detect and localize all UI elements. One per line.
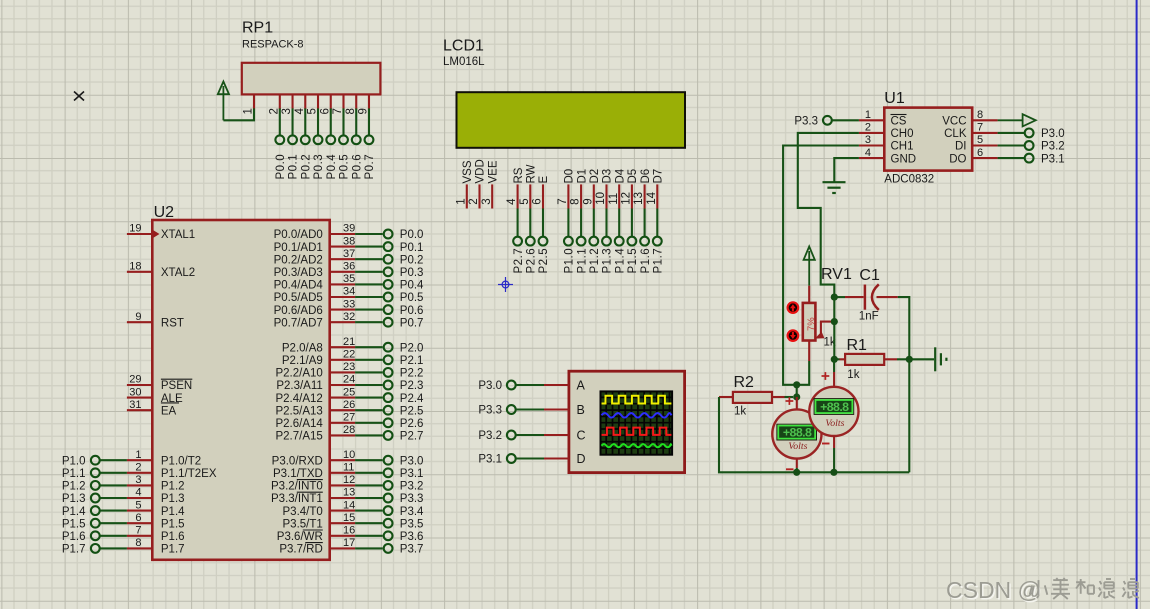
svg-text:P1.7: P1.7 — [62, 544, 86, 556]
svg-text:5: 5 — [307, 108, 319, 114]
svg-text:P2.7/A15: P2.7/A15 — [275, 431, 322, 443]
svg-text:17: 17 — [343, 537, 355, 549]
terminal P3.2 (U1) — [998, 141, 1065, 153]
svg-text:C: C — [577, 429, 586, 443]
svg-text:EA: EA — [161, 405, 177, 417]
svg-text:35: 35 — [343, 273, 355, 285]
terminal P3.0 (U2 right) — [355, 455, 423, 467]
svg-text:8: 8 — [345, 108, 357, 114]
svg-text:P2.3/A11: P2.3/A11 — [276, 380, 322, 392]
terminal P1.5 (U2 pin 6) — [62, 518, 127, 530]
svg-text:16: 16 — [343, 525, 355, 537]
svg-text:P1.6: P1.6 — [161, 531, 185, 543]
terminal P0.7 (U2 right) — [355, 317, 423, 329]
svg-text:P0.3: P0.3 — [313, 154, 325, 180]
svg-text:C1: C1 — [859, 267, 880, 284]
svg-text:D4: D4 — [614, 168, 626, 183]
svg-text:7: 7 — [135, 525, 141, 537]
watermark CSDN — [946, 577, 1139, 603]
svg-text:P0.7: P0.7 — [364, 154, 376, 180]
svg-text:P1.3: P1.3 — [602, 248, 614, 274]
wire R2 left down to bottom rail — [719, 397, 909, 472]
svg-text:P0.0: P0.0 — [400, 229, 424, 241]
svg-text:P3.0: P3.0 — [478, 380, 502, 392]
terminal P0.4 (U2 right) — [355, 280, 424, 292]
terminal P3.3 (U2 right) — [355, 493, 423, 505]
svg-text:P2.4/A12: P2.4/A12 — [275, 393, 322, 405]
terminal P1.5 (LCD pin) — [627, 209, 639, 274]
svg-text:23: 23 — [343, 361, 355, 373]
svg-text:P0.2/AD2: P0.2/AD2 — [274, 254, 323, 266]
terminal P1.0 (U2 pin 1) — [62, 455, 127, 467]
svg-text:4: 4 — [506, 198, 518, 205]
svg-text:7: 7 — [977, 122, 983, 134]
svg-text:13: 13 — [343, 487, 355, 499]
terminal P3.1 (U2 right) — [355, 468, 423, 480]
svg-text:1k: 1k — [847, 369, 859, 381]
terminal P3.2 (scope input) — [478, 430, 569, 442]
terminal P1.3 (LCD pin) — [602, 209, 614, 274]
capacitor C1 1nF — [834, 267, 898, 323]
wire U1 CH1 to node A — [783, 146, 859, 385]
V2 minus mark — [822, 443, 830, 445]
ground (right of R1, rotated) — [909, 347, 946, 371]
svg-text:31: 31 — [129, 399, 141, 411]
svg-text:P2.2: P2.2 — [400, 368, 424, 380]
svg-text:D5: D5 — [627, 169, 639, 184]
svg-text:2: 2 — [865, 122, 871, 134]
terminal P0.3 (RP1 pin 5) — [313, 108, 325, 179]
svg-text:B: B — [577, 403, 585, 417]
svg-text:1: 1 — [135, 449, 141, 461]
svg-text:10: 10 — [343, 449, 355, 461]
svg-text:R1: R1 — [847, 337, 868, 354]
terminal P2.3 (U2 right) — [355, 380, 423, 392]
terminal P0.7 (RP1 pin 9) — [364, 108, 376, 179]
svg-text:P0.1/AD1: P0.1/AD1 — [274, 242, 323, 254]
junction RV1 wiper — [831, 318, 838, 325]
svg-text:13: 13 — [633, 192, 645, 205]
svg-text:PSEN: PSEN — [161, 380, 192, 392]
terminal P2.6 (LCD pin) — [526, 209, 538, 274]
svg-text:26: 26 — [343, 399, 355, 411]
svg-text:5: 5 — [519, 198, 531, 204]
svg-text:+88.8: +88.8 — [783, 425, 812, 439]
svg-text:P3.1: P3.1 — [400, 468, 424, 480]
junction node A — [793, 381, 800, 388]
svg-text:P2.2/A10: P2.2/A10 — [275, 368, 322, 380]
terminal P3.1 (scope input) — [478, 454, 569, 466]
svg-text:GND: GND — [891, 153, 917, 165]
svg-text:P3.7: P3.7 — [400, 544, 424, 556]
svg-text:P1.1: P1.1 — [62, 468, 86, 480]
wire RV1 node down R1 node — [833, 297, 835, 359]
svg-text:34: 34 — [343, 286, 355, 298]
ground (U1 GND) — [823, 158, 859, 193]
junction C1/CH0/RV1 top node — [831, 294, 838, 301]
svg-text:A: A — [577, 379, 586, 393]
svg-text:P1.5: P1.5 — [627, 248, 639, 274]
LCD LCD1 LM016L — [443, 38, 685, 209]
svg-text:P3.7/RD: P3.7/RD — [279, 544, 322, 556]
terminal P3.4 (U2 right) — [355, 506, 424, 518]
svg-text:LCD1: LCD1 — [443, 38, 484, 55]
svg-text:P3.3: P3.3 — [794, 116, 818, 128]
svg-text:P3.0: P3.0 — [1041, 128, 1065, 140]
svg-text:1: 1 — [865, 109, 871, 121]
svg-text:RV1: RV1 — [821, 266, 852, 283]
resistor pack RP1 — [242, 19, 381, 114]
svg-text:6: 6 — [977, 147, 983, 159]
svg-text:P3.3/INT1: P3.3/INT1 — [271, 493, 323, 505]
svg-text:RS: RS — [513, 167, 525, 183]
svg-text:25: 25 — [343, 386, 355, 398]
svg-text:1: 1 — [455, 198, 467, 204]
svg-text:P1.5: P1.5 — [62, 518, 86, 530]
svg-text:P3.2: P3.2 — [400, 481, 424, 493]
terminal P1.2 (LCD pin) — [589, 209, 601, 274]
svg-text:P1.3: P1.3 — [62, 493, 86, 505]
svg-text:P2.5: P2.5 — [538, 248, 550, 274]
svg-text:Volts: Volts — [825, 418, 844, 429]
svg-text:9: 9 — [582, 198, 594, 204]
svg-text:RST: RST — [161, 317, 184, 329]
svg-text:14: 14 — [646, 191, 658, 204]
svg-text:P3.4: P3.4 — [400, 506, 424, 518]
svg-text:P2.6/A14: P2.6/A14 — [275, 418, 323, 430]
svg-text:P0.6: P0.6 — [351, 154, 363, 180]
V2 plus mark — [822, 372, 830, 380]
svg-text:2: 2 — [135, 462, 141, 474]
svg-text:6: 6 — [135, 512, 141, 524]
oscilloscope screen — [601, 391, 673, 454]
terminal P2.7 (LCD pin) — [513, 209, 525, 274]
potentiometer RV1 — [803, 266, 852, 361]
junction node B (R2/V1+) — [793, 393, 800, 400]
svg-text:D3: D3 — [602, 169, 614, 184]
svg-text:P0.7: P0.7 — [400, 317, 424, 329]
svg-text:P1.2: P1.2 — [589, 248, 601, 274]
svg-text:19: 19 — [129, 223, 141, 235]
terminal P1.0 (LCD pin) — [564, 209, 576, 274]
svg-text:P2.4: P2.4 — [400, 393, 424, 405]
svg-text:P0.2: P0.2 — [400, 254, 424, 266]
svg-text:P3.1/TXD: P3.1/TXD — [273, 468, 323, 480]
svg-text:P1.0/T2: P1.0/T2 — [161, 455, 201, 467]
origin marker (blue crosshair) — [498, 277, 513, 292]
svg-text:VSS: VSS — [462, 160, 474, 183]
terminal P3.3 (U1 CS) — [794, 116, 859, 128]
svg-text:33: 33 — [343, 298, 355, 310]
wire RV1 bottom to node A — [797, 361, 810, 385]
voltmeter V1 (left) — [772, 397, 821, 472]
svg-text:18: 18 — [129, 261, 141, 273]
terminal P0.1 (U2 right) — [355, 242, 423, 254]
svg-text:P2.6: P2.6 — [526, 248, 538, 274]
svg-text:1k: 1k — [734, 406, 746, 418]
svg-text:15: 15 — [343, 512, 355, 524]
svg-text:11: 11 — [608, 193, 620, 205]
svg-text:P3.0/RXD: P3.0/RXD — [272, 455, 323, 467]
svg-text:7: 7 — [332, 108, 344, 114]
svg-text:RW: RW — [526, 164, 538, 183]
svg-text:7%: 7% — [806, 317, 817, 331]
terminal P0.6 (RP1 pin 8) — [351, 108, 363, 179]
terminal P2.7 (U2 right) — [355, 431, 423, 443]
svg-text:P3.5/T1: P3.5/T1 — [283, 518, 323, 530]
svg-text:36: 36 — [343, 261, 355, 273]
svg-text:21: 21 — [343, 336, 355, 348]
svg-text:XTAL2: XTAL2 — [161, 267, 195, 279]
svg-text:P3.1: P3.1 — [1041, 153, 1065, 165]
terminal P3.5 (U2 right) — [355, 518, 423, 530]
svg-text:LM016L: LM016L — [443, 56, 485, 68]
terminal P0.0 (U2 right) — [355, 229, 423, 241]
svg-text:5: 5 — [977, 134, 983, 146]
svg-text:22: 22 — [343, 349, 355, 361]
terminal P0.4 (RP1 pin 6) — [326, 108, 338, 179]
svg-text:CS: CS — [891, 116, 907, 128]
svg-text:4: 4 — [865, 147, 871, 159]
terminal P2.4 (U2 right) — [355, 393, 424, 405]
wire U1 CH0 to RV1 wiper node — [798, 133, 859, 298]
terminal P2.5 (LCD pin) — [538, 209, 550, 274]
svg-text:CH0: CH0 — [891, 128, 914, 140]
svg-text:3: 3 — [135, 474, 141, 486]
svg-text:P0.2: P0.2 — [300, 154, 312, 180]
svg-text:D7: D7 — [653, 169, 665, 184]
voltmeter V2 (right) — [809, 359, 858, 472]
terminal P1.1 (LCD pin) — [576, 209, 588, 274]
terminal P3.3 (scope input) — [478, 405, 569, 417]
terminal P1.4 (LCD pin) — [614, 209, 626, 274]
svg-text:32: 32 — [343, 311, 355, 323]
svg-text:D2: D2 — [589, 169, 601, 184]
svg-text:10: 10 — [595, 192, 607, 205]
svg-text:P0.4: P0.4 — [400, 280, 424, 292]
terminal P1.2 (U2 pin 3) — [62, 481, 127, 493]
svg-text:27: 27 — [343, 412, 355, 424]
svg-text:39: 39 — [343, 223, 355, 235]
svg-text:P1.0: P1.0 — [62, 455, 86, 467]
svg-text:DI: DI — [955, 141, 967, 153]
junction R1 left — [831, 356, 838, 363]
terminal P3.2 (U2 right) — [355, 481, 423, 493]
terminal P1.7 (U2 pin 8) — [62, 544, 127, 556]
svg-text:RP1: RP1 — [242, 19, 273, 36]
svg-text:P3.3: P3.3 — [400, 493, 424, 505]
RV1 decrement button — [788, 330, 799, 341]
svg-text:P0.0: P0.0 — [275, 154, 287, 180]
svg-text:P2.1: P2.1 — [400, 355, 424, 367]
svg-text:P0.3/AD3: P0.3/AD3 — [274, 267, 323, 279]
svg-text:P0.7/AD7: P0.7/AD7 — [274, 317, 323, 329]
svg-text:P1.0: P1.0 — [564, 248, 576, 274]
power terminal (to RP1 pin 1) — [218, 82, 229, 121]
svg-text:P2.5/A13: P2.5/A13 — [275, 405, 322, 417]
svg-text:D6: D6 — [640, 169, 652, 184]
svg-text:8: 8 — [570, 198, 582, 204]
svg-text:P1.6: P1.6 — [62, 531, 86, 543]
svg-text:P2.5: P2.5 — [400, 405, 424, 417]
svg-text:P3.2: P3.2 — [1041, 141, 1065, 153]
svg-text:9: 9 — [358, 108, 370, 114]
svg-text:P2.0/A8: P2.0/A8 — [282, 342, 323, 354]
terminal P3.7 (U2 right) — [355, 544, 423, 556]
svg-text:CH1: CH1 — [891, 141, 914, 153]
terminal P2.0 (U2 right) — [355, 342, 423, 354]
svg-text:P0.6/AD6: P0.6/AD6 — [274, 305, 323, 317]
svg-text:4: 4 — [294, 108, 306, 115]
svg-text:P0.1: P0.1 — [288, 154, 300, 180]
svg-text:+88.8: +88.8 — [820, 400, 849, 414]
svg-text:29: 29 — [129, 374, 141, 386]
terminal P1.6 (LCD pin) — [640, 209, 652, 274]
RV1 increment button — [788, 302, 799, 313]
svg-text:P1.3: P1.3 — [161, 493, 185, 505]
svg-text:P0.6: P0.6 — [400, 305, 424, 317]
waveform channel A (yellow) — [602, 396, 672, 404]
svg-text:3: 3 — [281, 108, 293, 114]
svg-text:8: 8 — [135, 537, 141, 549]
terminal P3.0 (scope input) — [478, 380, 569, 392]
terminal P0.3 (U2 right) — [355, 267, 423, 279]
terminal P0.5 (U2 right) — [355, 292, 423, 304]
wire C1 right to R1 right vertical — [898, 297, 910, 359]
svg-text:P2.0: P2.0 — [400, 342, 424, 354]
svg-text:9: 9 — [135, 311, 141, 323]
svg-text:1nF: 1nF — [859, 311, 879, 323]
svg-text:CSDN @: CSDN @ — [946, 577, 1041, 603]
resistor R2 1k — [719, 374, 793, 418]
terminal P0.5 (RP1 pin 7) — [339, 108, 351, 179]
waveform channel B (blue) — [602, 413, 672, 417]
svg-text:P0.0/AD0: P0.0/AD0 — [274, 229, 323, 241]
svg-text:DO: DO — [949, 153, 966, 165]
svg-text:D: D — [577, 452, 586, 466]
svg-text:RESPACK-8: RESPACK-8 — [242, 39, 304, 51]
svg-text:VEE: VEE — [487, 160, 499, 183]
terminal P2.1 (U2 right) — [355, 355, 423, 367]
svg-text:U1: U1 — [884, 90, 905, 107]
svg-text:P0.5: P0.5 — [400, 292, 424, 304]
svg-text:D0: D0 — [564, 169, 576, 184]
svg-text:P2.1/A9: P2.1/A9 — [282, 355, 323, 367]
svg-text:VCC: VCC — [942, 116, 966, 128]
svg-text:37: 37 — [343, 248, 355, 260]
svg-text:P3.4/T0: P3.4/T0 — [283, 506, 323, 518]
terminal P1.1 (U2 pin 2) — [62, 468, 127, 480]
svg-text:P3.2: P3.2 — [478, 430, 502, 442]
svg-text:14: 14 — [343, 499, 355, 511]
svg-text:P1.7: P1.7 — [161, 544, 185, 556]
svg-text:6: 6 — [319, 108, 331, 114]
power terminal (above RV1) — [804, 247, 815, 286]
svg-text:P1.1/T2EX: P1.1/T2EX — [161, 468, 217, 480]
terminal P0.1 (RP1 pin 3) — [288, 108, 300, 179]
svg-text:P3.3: P3.3 — [478, 405, 502, 417]
svg-text:12: 12 — [621, 192, 633, 205]
svg-text:P1.4: P1.4 — [614, 248, 626, 274]
wire node A down to node B — [796, 385, 798, 397]
svg-text:P1.2: P1.2 — [62, 481, 86, 493]
svg-text:CLK: CLK — [944, 128, 967, 140]
svg-text:U2: U2 — [154, 204, 175, 221]
svg-text:11: 11 — [343, 462, 354, 474]
V1 plus mark — [786, 397, 794, 405]
svg-text:R2: R2 — [734, 374, 755, 391]
oscilloscope (graph) — [569, 371, 685, 472]
svg-text:P3.1: P3.1 — [478, 454, 502, 466]
svg-text:P0.1: P0.1 — [400, 242, 424, 254]
terminal P0.0 (RP1 pin 2) — [275, 108, 287, 179]
svg-text:P1.7: P1.7 — [653, 248, 665, 274]
terminal P2.5 (U2 right) — [355, 405, 423, 417]
svg-text:5: 5 — [135, 499, 141, 511]
svg-text:P2.6: P2.6 — [400, 418, 424, 430]
wire R1 right vertical down to bottom rail — [908, 359, 910, 472]
terminal P1.6 (U2 pin 7) — [62, 531, 127, 543]
terminal P1.4 (U2 pin 5) — [62, 506, 127, 518]
svg-text:30: 30 — [129, 386, 141, 398]
svg-text:24: 24 — [343, 374, 355, 386]
svg-text:P1.2: P1.2 — [161, 481, 185, 493]
junction bottom rail V1 — [793, 469, 800, 476]
svg-text:P1.4: P1.4 — [62, 506, 86, 518]
svg-text:3: 3 — [865, 134, 871, 146]
svg-text:P0.4/AD4: P0.4/AD4 — [274, 280, 324, 292]
svg-text:7: 7 — [557, 198, 569, 204]
svg-text:VDD: VDD — [475, 159, 487, 183]
wire power to RP1 pin 1 — [223, 108, 254, 120]
svg-text:P3.6: P3.6 — [400, 531, 424, 543]
terminal P3.6 (U2 right) — [355, 531, 423, 543]
terminal P1.3 (U2 pin 4) — [62, 493, 127, 505]
origin marker X — [74, 92, 84, 101]
svg-text:8: 8 — [977, 109, 983, 121]
resistor R1 1k — [834, 337, 909, 381]
svg-text:XTAL1: XTAL1 — [161, 229, 195, 241]
terminal P0.6 (U2 right) — [355, 305, 423, 317]
svg-text:P1.4: P1.4 — [161, 506, 185, 518]
svg-text:ADC0832: ADC0832 — [884, 173, 934, 185]
microcontroller U2 — [127, 204, 355, 560]
svg-text:P3.2/INT0: P3.2/INT0 — [271, 481, 323, 493]
power terminal (U1 VCC) — [998, 114, 1036, 126]
waveform channel D (green) — [602, 444, 672, 447]
svg-text:1: 1 — [243, 108, 255, 114]
terminal P3.1 (U1) — [998, 153, 1065, 165]
junction R1 right — [906, 356, 913, 363]
terminal P0.2 (U2 right) — [355, 254, 423, 266]
svg-text:P0.5/AD5: P0.5/AD5 — [274, 292, 323, 304]
svg-text:2: 2 — [468, 198, 480, 204]
svg-text:E: E — [538, 176, 550, 184]
ADC U1 ADC0832 — [859, 90, 998, 185]
svg-text:P3.0: P3.0 — [400, 455, 424, 467]
svg-text:2: 2 — [268, 108, 280, 114]
svg-text:12: 12 — [343, 474, 355, 486]
svg-text:P2.7: P2.7 — [513, 248, 525, 274]
terminal P3.0 (U1) — [998, 128, 1065, 140]
svg-text:4: 4 — [135, 487, 141, 499]
svg-text:P3.6/WR: P3.6/WR — [277, 531, 323, 543]
svg-text:P2.3: P2.3 — [400, 380, 424, 392]
svg-text:P0.4: P0.4 — [326, 154, 338, 180]
svg-text:D1: D1 — [576, 169, 588, 184]
svg-text:Volts: Volts — [788, 441, 807, 452]
svg-text:P0.3: P0.3 — [400, 267, 424, 279]
